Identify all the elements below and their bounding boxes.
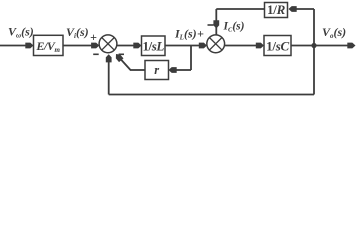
- summing junction S1: [99, 35, 117, 53]
- node Vω(s) input label: [8, 25, 34, 40]
- wire tap down from IL line to block r: [169, 46, 192, 73]
- plus sign at S2 left input: [197, 27, 204, 41]
- wire E/Vm to summing junction S1: [63, 43, 99, 49]
- wire S1 to block 1/sL: [117, 43, 142, 49]
- svg-text:+: +: [90, 30, 97, 44]
- svg-text:IL(s): IL(s): [174, 27, 197, 42]
- wire bottom feedback Vo to S1 (minus input): [106, 46, 314, 95]
- minus sign above S2: [208, 24, 214, 26]
- wire r to S1 (diagonal, minus input): [114, 52, 145, 70]
- svg-text:1/R: 1/R: [267, 2, 286, 17]
- plus sign at S1 left input: [90, 30, 97, 44]
- node Vo(s) output label: [322, 25, 346, 40]
- svg-text:Vo(s): Vo(s): [322, 25, 346, 40]
- svg-text:IC(s): IC(s): [223, 21, 245, 34]
- svg-text:r: r: [154, 63, 159, 77]
- minus sign below-left of S1: [93, 53, 99, 55]
- wire 1/R to S2 top (minus input): [213, 9, 264, 35]
- block r: [145, 61, 169, 80]
- wire S2 to block 1/sC: [224, 43, 264, 49]
- block E/Vm: [34, 35, 64, 55]
- block 1/sC: [264, 36, 291, 56]
- svg-text:1/sC: 1/sC: [266, 39, 289, 54]
- node IC(s) label: [223, 21, 245, 34]
- svg-text:+: +: [197, 27, 204, 41]
- svg-text:1/sL: 1/sL: [142, 39, 164, 54]
- summing junction S2: [207, 35, 225, 53]
- block 1/sL: [142, 36, 166, 56]
- svg-text:Vi(s): Vi(s): [66, 25, 89, 40]
- wire 1/sC to output: [291, 43, 356, 49]
- minus sign below-right of S1: [119, 53, 124, 55]
- wire up from node to block 1/R: [289, 6, 315, 45]
- junction node dot on output line: [311, 43, 316, 48]
- wire 1/sL to summing junction S2: [165, 43, 207, 49]
- block 1/R: [265, 2, 288, 18]
- svg-text:Vω(s): Vω(s): [8, 25, 34, 40]
- node Vi(s) label: [66, 25, 89, 40]
- wire input to block E/Vm: [0, 43, 34, 49]
- node IL(s) label: [174, 27, 197, 42]
